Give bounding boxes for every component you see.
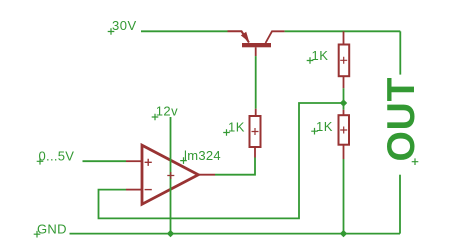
- resistor R2 body: [250, 116, 261, 147]
- label 30V cross: [108, 28, 115, 35]
- resistor R3 origin cross: [340, 127, 347, 134]
- wire 30V rail: [141, 30, 228, 32]
- wire collector rail to OUT: [285, 30, 401, 32]
- wire input signal: [83, 160, 127, 162]
- svg-text:lm324: lm324: [184, 148, 221, 163]
- svg-text:1K: 1K: [312, 48, 329, 63]
- wire node down to R3: [343, 103, 345, 110]
- label 12v cross: [152, 114, 159, 121]
- wire OUT bottom segment: [399, 175, 401, 234]
- svg-text:30V: 30V: [112, 18, 137, 33]
- op-amp U1 minus input marker: [145, 189, 152, 191]
- label OUT cross: [412, 158, 419, 165]
- wire R3 to ground rail: [343, 159, 345, 234]
- resistor R2 top pin: [255, 109, 257, 116]
- op-amp U1 inverting input pin: [126, 189, 142, 191]
- svg-text:OUT: OUT: [380, 77, 423, 162]
- wire node to feedback: [99, 103, 344, 218]
- svg-text:1K: 1K: [316, 119, 333, 134]
- resistor R2 bottom pin: [254, 147, 256, 158]
- node junction 12v-gnd: [167, 230, 174, 237]
- transistor Q1 base lead: [255, 47, 257, 56]
- wire 12v supply vertical: [170, 117, 172, 234]
- resistor R1 top pin: [343, 31, 345, 44]
- label 0...5V cross: [37, 158, 44, 165]
- node junction R3-gnd: [340, 230, 347, 237]
- transistor Q1 collector lead: [266, 31, 285, 43]
- wire R2 to op-amp output: [215, 158, 255, 175]
- resistor R1 bottom pin: [343, 76, 345, 88]
- label 1K (R1) cross: [307, 57, 314, 64]
- label 1K (R2) cross: [223, 129, 230, 136]
- op-amp U1 triangle: [142, 145, 198, 204]
- op-amp U1 output pin: [198, 174, 215, 176]
- svg-text:GND: GND: [37, 221, 67, 236]
- label lm324 cross: [180, 157, 187, 164]
- label GND cross: [34, 231, 41, 238]
- svg-text:0...5V: 0...5V: [39, 148, 75, 163]
- svg-text:1K: 1K: [228, 120, 245, 135]
- wire OUT top segment: [399, 31, 401, 74]
- transistor Q1 emitter lead: [228, 31, 250, 42]
- op-amp U1 origin cross: [167, 172, 174, 179]
- wire base to R2: [255, 56, 257, 109]
- resistor R2 origin cross: [252, 128, 259, 135]
- wire ground rail: [70, 233, 401, 235]
- op-amp U1 noninverting input pin: [126, 160, 142, 162]
- svg-text:12v: 12v: [156, 103, 178, 118]
- transistor Q1 emitter arrow: [241, 32, 250, 43]
- resistor R1 body: [339, 45, 350, 77]
- wire R1 to node: [343, 88, 345, 103]
- op-amp U1 plus input marker: [145, 159, 152, 166]
- resistor R1 origin cross: [340, 57, 347, 64]
- resistor R3 body: [339, 115, 350, 145]
- transistor Q1 base bar: [242, 43, 271, 47]
- resistor R3 top pin: [343, 110, 345, 115]
- label 1K (R3) cross: [311, 128, 318, 135]
- resistor R3 bottom pin: [343, 145, 345, 159]
- node junction divider: [340, 99, 347, 106]
